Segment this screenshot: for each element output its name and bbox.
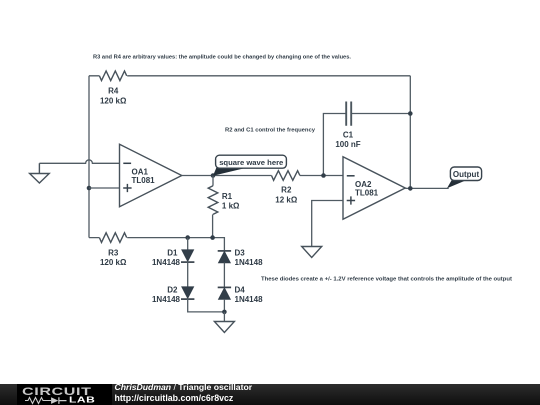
- wire D1 to D2: [187, 262, 189, 287]
- svg-text:12 kΩ: 12 kΩ: [275, 195, 298, 204]
- svg-text:TL081: TL081: [132, 176, 156, 185]
- label callout Output: [447, 167, 482, 188]
- svg-text:ChrisDudman / Triangle oscilla: ChrisDudman / Triangle oscillator: [115, 382, 253, 392]
- wire left vertical (R4 corner down to R3 corner): [88, 76, 90, 238]
- junction node square-wave (R1 top): [211, 173, 216, 178]
- svg-text:Output: Output: [453, 170, 480, 179]
- diode D3: [218, 248, 263, 267]
- op-amp OA1: [120, 144, 182, 207]
- resistor R1: [208, 176, 240, 238]
- svg-text:R2: R2: [281, 186, 292, 195]
- ground left: [30, 163, 50, 183]
- resistor R3: [99, 233, 127, 267]
- capacitor C1: [335, 102, 360, 149]
- junction node output: [408, 186, 413, 191]
- wire OA1 non-inverting input: [89, 187, 120, 189]
- svg-text:D1: D1: [167, 248, 178, 257]
- resistor R4: [99, 71, 127, 105]
- svg-text:R3 and R4 are arbitrary values: R3 and R4 are arbitrary values: the ampl…: [93, 55, 351, 61]
- svg-text:http://circuitlab.com/c6r8vcz: http://circuitlab.com/c6r8vcz: [115, 393, 234, 403]
- logo CIRCUIT text: [22, 386, 92, 398]
- wire C1 left branch with corner down to inverting node: [323, 114, 346, 176]
- svg-text:D3: D3: [235, 248, 246, 257]
- op-amp OA2: [343, 157, 405, 220]
- wire D3 to D4: [223, 263, 225, 288]
- svg-text:R3: R3: [108, 248, 119, 257]
- junction node bottom ground: [222, 310, 227, 315]
- svg-text:These diodes create a +/- 1.2V: These diodes create a +/- 1.2V reference…: [261, 277, 512, 283]
- junction node D1 top: [185, 235, 190, 240]
- wire OA2 non-inverting to ground: [312, 201, 343, 247]
- footer bar: [0, 384, 540, 405]
- svg-text:C1: C1: [343, 131, 354, 140]
- junction node OA1 non-inverting: [87, 186, 92, 191]
- svg-text:R4: R4: [108, 87, 119, 96]
- ground bottom: [214, 312, 234, 333]
- svg-text:1N4148: 1N4148: [235, 295, 264, 304]
- svg-text:D2: D2: [167, 285, 178, 294]
- junction node R1 bottom: [210, 235, 215, 240]
- svg-text:R2 and C1 control the frequenc: R2 and C1 control the frequency: [225, 128, 316, 134]
- wire D2 bottom to ground node: [188, 299, 225, 312]
- svg-text:square wave here: square wave here: [219, 158, 284, 167]
- svg-text:D4: D4: [235, 285, 246, 294]
- junction node C1-right / feedback: [408, 111, 413, 116]
- resistor R2: [272, 171, 300, 205]
- svg-text:120 kΩ: 120 kΩ: [100, 258, 127, 267]
- svg-text:1 kΩ: 1 kΩ: [222, 202, 240, 211]
- diode D4: [218, 285, 263, 304]
- logo resistor-diode glyph: [25, 397, 67, 404]
- svg-text:120 kΩ: 120 kΩ: [100, 97, 127, 106]
- wire right vertical (top corner down to OA2 output node): [409, 76, 411, 189]
- ground OA2: [302, 247, 322, 258]
- svg-text:LAB: LAB: [69, 396, 95, 405]
- logo LAB text: [69, 396, 95, 405]
- junction node OA2 inverting: [321, 173, 326, 178]
- wire OA2 output: [405, 187, 448, 189]
- diode D1: [152, 248, 194, 267]
- wire from left ground to OA1 inverting input with hop over vertical wire: [39, 160, 119, 163]
- svg-text:1N4148: 1N4148: [152, 295, 181, 304]
- wire C1 right branch: [352, 113, 411, 115]
- wire top horizontal (R4 corner to top-right corner): [89, 75, 410, 77]
- diode D2: [152, 285, 194, 304]
- wire bottom row (left corner through R3 to D3 corner): [89, 238, 224, 250]
- svg-text:TL081: TL081: [355, 188, 379, 197]
- svg-text:100 nF: 100 nF: [335, 140, 360, 149]
- wire D1 branch down: [187, 238, 189, 250]
- svg-text:R1: R1: [222, 192, 233, 201]
- label callout square wave here: [213, 155, 286, 176]
- wire OA1 output to OA2 inverting input: [182, 175, 343, 177]
- svg-text:1N4148: 1N4148: [235, 258, 264, 267]
- wire D4 bottom to ground node: [223, 299, 225, 312]
- svg-text:1N4148: 1N4148: [152, 258, 181, 267]
